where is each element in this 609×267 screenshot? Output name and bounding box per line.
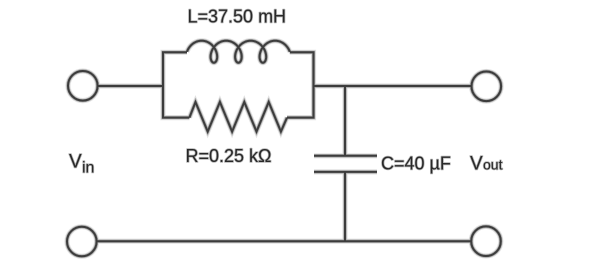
schematic strokes: mid halo layer — [67, 41, 501, 257]
svg-text:V: V — [470, 154, 483, 175]
svg-text:L=37.50 mH: L=37.50 mH — [188, 6, 287, 26]
svg-text:out: out — [483, 157, 503, 173]
svg-text:in: in — [82, 160, 94, 177]
svg-text:R=0.25 kΩ: R=0.25 kΩ — [186, 146, 272, 166]
schematic strokes: outer halo layer — [67, 41, 501, 257]
svg-text:V: V — [69, 152, 82, 173]
schematic strokes: dark core layer — [67, 41, 501, 257]
svg-text:C=40 µF: C=40 µF — [381, 154, 451, 174]
